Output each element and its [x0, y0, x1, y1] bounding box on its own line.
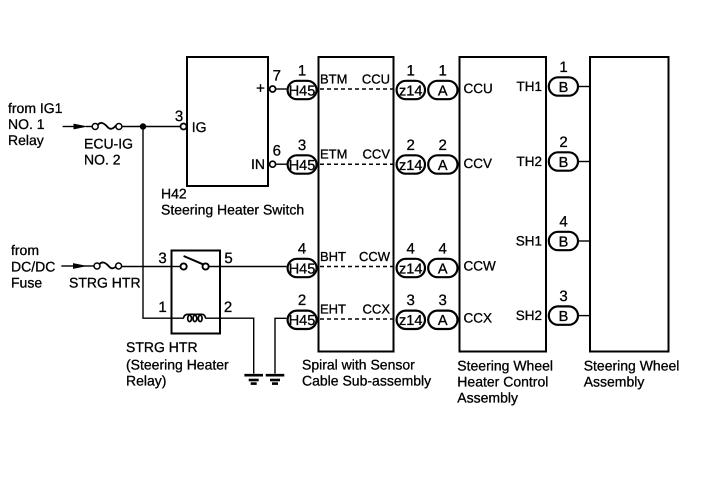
svg-text:IN: IN: [251, 156, 265, 172]
svg-text:BHT: BHT: [320, 249, 346, 264]
svg-text:B: B: [559, 309, 569, 325]
svg-text:BTM: BTM: [320, 72, 347, 87]
connector A pin 2: [428, 137, 457, 174]
svg-text:CCW: CCW: [464, 259, 496, 274]
wire: IG1 feed with arrow: [63, 124, 93, 130]
svg-text:Fuse: Fuse: [11, 275, 42, 291]
wire: H45 (EHT) to ground: [275, 318, 287, 373]
svg-text:1: 1: [559, 59, 567, 76]
wire: relay pin 2 to ground: [220, 318, 254, 373]
net label EHT / CCX: [320, 302, 390, 317]
relay coil: [172, 314, 220, 321]
svg-text:2: 2: [439, 137, 447, 154]
svg-text:z14: z14: [399, 261, 422, 277]
svg-text:3: 3: [158, 250, 166, 267]
wire: BHT-CCW dashed: [320, 266, 396, 268]
svg-text:2: 2: [298, 292, 306, 309]
svg-text:ECU-IG: ECU-IG: [84, 136, 133, 152]
label: Steering Wheel Assembly: [584, 357, 680, 389]
svg-text:from IG1: from IG1: [8, 100, 63, 116]
svg-text:H45: H45: [289, 261, 316, 277]
svg-text:Relay: Relay: [8, 132, 44, 148]
label: STRG HTR (Steering Heater Relay): [126, 339, 229, 389]
svg-text:A: A: [438, 313, 448, 329]
svg-text:2: 2: [224, 299, 232, 316]
wire: relay pin 5 to H45 (BHT): [209, 266, 287, 268]
fuse STRG HTR: [94, 262, 122, 269]
pin 7 of H42 (+): [256, 68, 281, 98]
svg-text:CCX: CCX: [464, 311, 493, 326]
svg-text:(Steering Heater: (Steering Heater: [126, 357, 229, 373]
connector H45 pin 2 (EHT): [288, 292, 317, 329]
label: ECU-IG NO. 2: [84, 136, 133, 168]
connector z14 pin 3: [397, 292, 425, 329]
wire: fuse to relay pin 3: [122, 266, 172, 268]
svg-text:B: B: [559, 155, 569, 171]
svg-text:1: 1: [158, 299, 166, 316]
ground (EHT): [266, 375, 285, 383]
svg-text:3: 3: [407, 292, 415, 309]
svg-text:3: 3: [559, 288, 567, 305]
svg-text:Heater Control: Heater Control: [457, 373, 548, 389]
svg-text:1: 1: [298, 62, 306, 79]
svg-text:CCV: CCV: [464, 156, 493, 171]
svg-text:4: 4: [298, 240, 306, 257]
svg-text:STRG HTR: STRG HTR: [126, 339, 198, 355]
svg-text:CCV: CCV: [363, 147, 391, 162]
wire: junction down to relay pin 1: [143, 127, 172, 319]
steering wheel assembly box: [590, 57, 669, 352]
svg-text:3: 3: [439, 292, 447, 309]
label: H42 Steering Heater Switch: [161, 186, 304, 218]
svg-text:7: 7: [273, 68, 281, 85]
svg-text:A: A: [438, 83, 448, 99]
net label ETM / CCV: [320, 147, 390, 162]
label: from IG1 NO. 1 Relay: [8, 100, 63, 148]
fuse ECU-IG NO. 2: [92, 123, 122, 130]
pin 3 of H42 (IG): [175, 108, 207, 135]
svg-text:CCW: CCW: [359, 249, 391, 264]
svg-text:Steering Wheel: Steering Wheel: [457, 357, 553, 373]
svg-text:B: B: [559, 80, 569, 96]
svg-text:5: 5: [224, 250, 232, 267]
connector z14 pin 2: [397, 137, 425, 174]
svg-text:SH1: SH1: [516, 234, 542, 249]
svg-text:CCX: CCX: [363, 302, 391, 317]
svg-text:ETM: ETM: [320, 147, 347, 162]
wire: B4 to assembly: [579, 240, 590, 242]
connector A pin 1: [428, 62, 457, 99]
label: Spiral with Sensor Cable Sub-assembly: [302, 357, 431, 389]
svg-text:from: from: [11, 242, 39, 258]
svg-text:CCU: CCU: [464, 81, 493, 96]
connector B pin 1 (TH1): [549, 59, 578, 96]
svg-text:NO. 2: NO. 2: [84, 152, 121, 168]
svg-text:z14: z14: [399, 158, 422, 174]
svg-text:IG: IG: [192, 119, 207, 135]
svg-text:TH1: TH1: [516, 79, 542, 94]
connector A pin 4: [428, 240, 457, 277]
connector H45 pin 4 (BHT): [288, 240, 317, 277]
connector A pin 3: [428, 292, 457, 329]
wire: BTM-CCU dashed: [320, 88, 396, 90]
svg-text:EHT: EHT: [320, 302, 346, 317]
svg-text:Steering Heater Switch: Steering Heater Switch: [161, 202, 304, 218]
svg-text:+: +: [256, 80, 265, 97]
wire: DC/DC feed with arrow: [61, 263, 94, 269]
connector B pin 4 (SH1): [549, 213, 578, 250]
net label BTM / CCU: [320, 72, 390, 87]
pin 6 of H42 (IN): [251, 143, 281, 173]
svg-text:H42: H42: [161, 186, 187, 202]
svg-text:z14: z14: [399, 83, 422, 99]
svg-text:4: 4: [439, 240, 447, 257]
switch H42 box: [187, 57, 268, 186]
connector z14 pin 1: [397, 62, 425, 99]
svg-text:A: A: [438, 261, 448, 277]
wire: pin 7 to H45: [276, 88, 287, 90]
relay switch contact: [172, 256, 209, 270]
wire: ETM-CCV dashed: [320, 163, 396, 165]
wire: B2 to assembly: [579, 161, 590, 163]
spiral cable box: [319, 57, 394, 352]
svg-text:Spiral with Sensor: Spiral with Sensor: [302, 357, 415, 373]
wire: B3 to assembly: [579, 315, 590, 317]
svg-text:A: A: [438, 158, 448, 174]
svg-text:TH2: TH2: [516, 154, 542, 169]
svg-text:NO. 1: NO. 1: [8, 116, 45, 132]
connector H45 pin 3 (ETM): [288, 137, 317, 174]
svg-text:3: 3: [175, 108, 183, 125]
svg-text:CCU: CCU: [362, 72, 390, 87]
connector B pin 2 (TH2): [549, 134, 578, 171]
connector B pin 3 (SH2): [549, 288, 578, 325]
svg-text:SH2: SH2: [516, 308, 542, 323]
svg-text:1: 1: [439, 62, 447, 79]
node: junction dot: [140, 123, 146, 129]
relay STRG HTR box: [172, 251, 221, 334]
net label BHT / CCW: [320, 249, 391, 264]
svg-text:z14: z14: [399, 313, 422, 329]
wire: EHT-CCX dashed: [320, 318, 396, 320]
svg-text:4: 4: [559, 213, 567, 230]
svg-text:1: 1: [407, 62, 415, 79]
svg-text:DC/DC: DC/DC: [11, 259, 55, 275]
svg-text:Cable Sub-assembly: Cable Sub-assembly: [302, 373, 431, 389]
ground (relay pin 2): [244, 375, 263, 383]
svg-text:Assembly: Assembly: [457, 389, 518, 405]
label: Steering Wheel Heater Control Assembly: [457, 357, 553, 405]
svg-text:H45: H45: [289, 313, 316, 329]
connector z14 pin 4: [397, 240, 425, 277]
label: from DC/DC Fuse: [11, 242, 55, 291]
wire: fuse to H42 pin 3: [122, 126, 181, 128]
svg-text:B: B: [559, 234, 569, 250]
svg-text:Relay): Relay): [126, 373, 166, 389]
wire: B1 to assembly: [579, 86, 590, 88]
svg-text:H45: H45: [289, 158, 316, 174]
wire: pin 6 to H45: [276, 163, 287, 165]
svg-text:Steering Wheel: Steering Wheel: [584, 357, 680, 373]
connector H45 pin 1 (BTM): [288, 62, 317, 99]
svg-text:STRG HTR: STRG HTR: [69, 275, 141, 291]
svg-text:2: 2: [559, 134, 567, 151]
svg-text:3: 3: [298, 137, 306, 154]
svg-text:4: 4: [407, 240, 415, 257]
svg-text:2: 2: [407, 137, 415, 154]
svg-text:6: 6: [273, 143, 281, 160]
svg-text:Assembly: Assembly: [584, 373, 645, 389]
svg-text:H45: H45: [289, 83, 316, 99]
steering wheel heater control box: [460, 57, 547, 352]
